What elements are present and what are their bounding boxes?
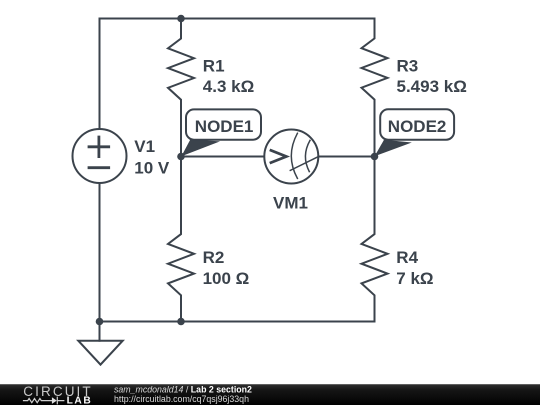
footer bar <box>0 384 540 405</box>
junction node NODE2 dot <box>371 153 379 161</box>
wire voltmeter to NODE2 <box>318 156 374 158</box>
junction bottom rail at R2 <box>177 318 185 326</box>
svg-text:5.493 kΩ: 5.493 kΩ <box>397 77 467 96</box>
resistor R4 <box>362 157 388 322</box>
label V1 value <box>134 137 170 178</box>
node NODE1 callout <box>181 109 261 156</box>
wire NODE1 to voltmeter <box>181 156 264 158</box>
resistor R3 <box>362 19 388 157</box>
label R3 value <box>397 57 467 96</box>
wire left branch bottom <box>99 183 101 322</box>
logo resistor squiggle <box>24 399 52 403</box>
svg-text:LAB: LAB <box>67 396 93 405</box>
svg-text:R3: R3 <box>397 57 419 76</box>
svg-text:NODE1: NODE1 <box>195 117 254 136</box>
svg-text:http://circuitlab.com/cq7qsj96: http://circuitlab.com/cq7qsj96j33qh <box>114 394 249 404</box>
svg-text:100 Ω: 100 Ω <box>203 269 250 288</box>
svg-text:R4: R4 <box>396 248 418 267</box>
voltmeter VM1 <box>264 130 318 184</box>
wire top rail <box>100 18 375 20</box>
svg-text:NODE2: NODE2 <box>388 117 447 136</box>
svg-text:R1: R1 <box>203 57 225 76</box>
logo diode <box>52 397 57 404</box>
ground <box>78 322 122 365</box>
svg-text:4.3 kΩ: 4.3 kΩ <box>203 77 254 96</box>
svg-text:V1: V1 <box>134 137 155 156</box>
label R2 value <box>203 248 250 288</box>
resistor R1 <box>168 19 194 157</box>
label R1 value <box>203 57 254 96</box>
svg-text:VM1: VM1 <box>273 194 308 213</box>
resistor R2 <box>168 157 194 322</box>
junction node NODE1 dot <box>177 153 185 161</box>
svg-text:7 kΩ: 7 kΩ <box>396 269 433 288</box>
wire left branch top <box>99 19 101 130</box>
voltage source V1 <box>73 129 127 183</box>
svg-text:10 V: 10 V <box>134 158 170 177</box>
svg-text:R2: R2 <box>203 248 225 267</box>
label R4 value <box>396 248 433 288</box>
junction bottom rail at ground <box>96 318 104 326</box>
junction top rail at R1 <box>177 15 185 23</box>
node NODE2 callout <box>375 109 455 156</box>
wire bottom rail <box>100 321 375 323</box>
